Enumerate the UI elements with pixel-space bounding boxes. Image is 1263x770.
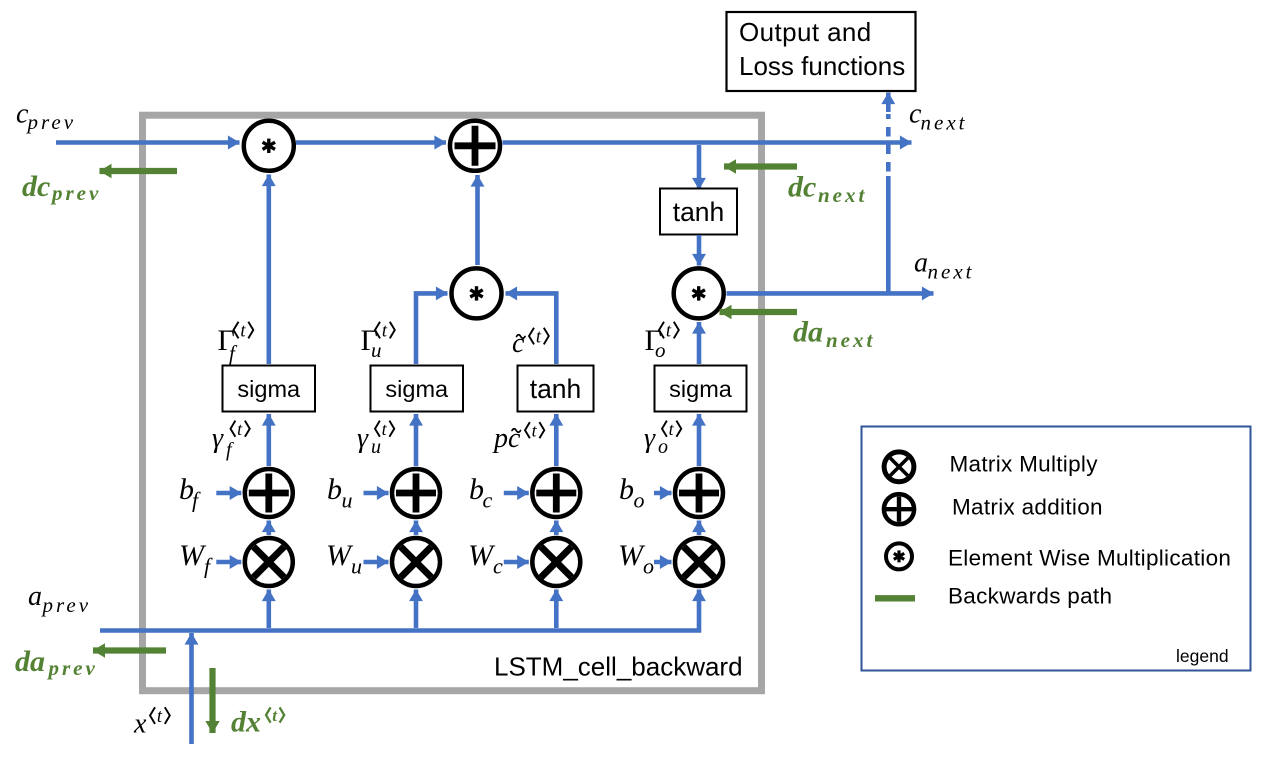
label a_next: [914, 248, 974, 284]
svg-text:c: c: [493, 554, 503, 579]
svg-text:next: next: [928, 260, 975, 284]
svg-text:prev: prev: [26, 110, 77, 134]
wire riser arrow into loss box: [886, 93, 891, 113]
svg-text:o: o: [655, 338, 666, 362]
wire mult circle up to add circle (col o): [697, 521, 702, 536]
svg-text:t: t: [536, 328, 542, 348]
svg-text:t: t: [157, 707, 163, 727]
wire a_prev with elbow up into matmul W_o: [100, 590, 699, 631]
box tanh (output path): [660, 189, 737, 235]
label c_next: [909, 99, 967, 135]
op-circle mult-mid (gamma_u * c_tilde): [452, 268, 502, 318]
op-circle mult1 (c_prev * gamma_f): [244, 121, 294, 171]
wire tanh to mult-out: [697, 235, 702, 266]
svg-text:next: next: [921, 111, 968, 135]
legend backwards path symbol: [875, 595, 915, 601]
label gamma_o^<t>: [644, 419, 681, 458]
svg-text:γ: γ: [644, 423, 656, 454]
label c_prev: [16, 99, 76, 135]
op-circle matmul W_c: [532, 538, 580, 586]
svg-text:b: b: [327, 473, 342, 506]
label gamma_f^<t>: [212, 419, 250, 461]
wire riser dashed segment: [886, 114, 891, 172]
svg-text:u: u: [342, 488, 353, 513]
svg-text:da: da: [793, 316, 823, 349]
wire b_f into add circle: [216, 491, 241, 496]
wire a_next: [727, 291, 934, 296]
svg-text:o: o: [634, 488, 645, 513]
green arrow dx down: [209, 668, 215, 733]
wire mult circle up to add circle (col f): [266, 521, 271, 536]
legend matmul symbol: [884, 452, 914, 482]
wire b_c into add circle: [504, 491, 529, 496]
svg-text:W: W: [468, 539, 496, 572]
wire add circle up to box (col f): [266, 414, 271, 466]
op-circle add b_f: [245, 469, 293, 517]
svg-text:next: next: [826, 328, 875, 352]
op-circle add b_u: [392, 469, 440, 517]
svg-text:prev: prev: [41, 593, 92, 617]
label a_prev: [28, 581, 91, 617]
svg-text:γ: γ: [357, 423, 369, 454]
label Gamma_f^<t>: [218, 322, 254, 366]
wire a_next riser: [886, 176, 891, 293]
op-circle add b_o: [675, 469, 723, 517]
wire tanh_c elbow to mult-mid: [506, 293, 557, 364]
svg-text:o: o: [643, 554, 654, 579]
label W_o: [618, 539, 654, 579]
wire x input: [189, 633, 194, 744]
svg-text:Matrix addition: Matrix addition: [952, 495, 1103, 520]
label gamma_u^<t>: [357, 419, 394, 458]
box sigma (update gate): [371, 366, 464, 412]
op-circle mult-out (a_next = gamma_o * tanh(c)): [674, 268, 724, 318]
LSTM cell border: [143, 115, 762, 691]
svg-text:pc: pc: [492, 423, 521, 454]
wire b_o into add circle: [654, 491, 672, 496]
svg-text:LSTM_cell_backward: LSTM_cell_backward: [494, 652, 743, 682]
svg-text:c: c: [512, 328, 525, 359]
svg-text:u: u: [371, 338, 382, 362]
legend add symbol: [884, 494, 914, 524]
label W_u: [326, 539, 362, 579]
label dc_next: [788, 171, 867, 208]
svg-text:tanh: tanh: [673, 197, 725, 227]
wire mult circle up to add circle (col c): [554, 521, 559, 536]
svg-text:W: W: [326, 539, 354, 572]
svg-text:W: W: [179, 539, 207, 572]
green arrow dc_prev: [100, 168, 178, 174]
label p c_tilde^<t>: [492, 421, 544, 455]
svg-text:tanh: tanh: [530, 374, 582, 404]
label b_u: [327, 473, 353, 513]
svg-text:sigma: sigma: [385, 376, 449, 402]
svg-text:t: t: [382, 322, 388, 342]
green arrow da_prev: [93, 647, 166, 653]
label W_f: [179, 539, 213, 579]
label x^<t>: [133, 707, 170, 740]
wire W_o into mult circle: [654, 560, 672, 565]
svg-text:a: a: [28, 581, 42, 612]
op-circle matmul W_f: [245, 538, 293, 586]
wire a_prev line up into matmul (col f): [266, 590, 271, 629]
wire add1 to c_next: [503, 140, 912, 145]
label dc_prev: [22, 170, 101, 205]
svg-text:c: c: [483, 488, 493, 513]
green arrow da_next: [720, 309, 798, 315]
label b_f: [179, 473, 201, 513]
box Output and Loss functions: [727, 12, 916, 91]
legend elementwise symbol: [886, 543, 912, 569]
svg-text:γ: γ: [212, 423, 224, 454]
label c_tilde^<t>: [512, 328, 549, 360]
svg-text:b: b: [619, 473, 634, 506]
svg-text:prev: prev: [47, 656, 98, 680]
svg-text:Backwards path: Backwards path: [948, 584, 1112, 609]
wire mult1 to add1: [296, 140, 446, 145]
wire W_c into mult circle: [504, 560, 529, 565]
svg-text:o: o: [658, 436, 668, 458]
svg-text:x: x: [133, 709, 147, 740]
wire sigma_u elbow to mult-mid: [416, 293, 448, 364]
wire W_f into mult circle: [216, 560, 241, 565]
label W_c: [468, 539, 503, 579]
svg-text:legend: legend: [1176, 646, 1229, 666]
wire c_prev into mult1: [56, 140, 240, 145]
svg-text:W: W: [618, 539, 646, 572]
wire W_u into mult circle: [364, 560, 389, 565]
svg-text:Output and: Output and: [739, 17, 872, 47]
svg-text:Matrix Multiply: Matrix Multiply: [950, 452, 1099, 477]
box sigma (output gate): [655, 366, 747, 412]
svg-text:da: da: [15, 645, 45, 678]
wire add circle up to box (col o): [697, 414, 702, 466]
wire sigma_f up to mult1: [266, 175, 271, 365]
label b_o: [619, 473, 645, 513]
label da_prev: [15, 645, 98, 680]
op-circle add1 (cell state sum): [450, 121, 500, 171]
svg-text:dc: dc: [22, 170, 50, 203]
wire b_u into add circle: [364, 491, 389, 496]
wire add circle up to box (col c): [554, 414, 559, 466]
svg-text:dc: dc: [788, 171, 816, 204]
label Gamma_o^<t>: [645, 322, 679, 363]
wire mult circle up to add circle (col u): [414, 521, 419, 536]
svg-text:u: u: [371, 436, 381, 458]
svg-text:prev: prev: [50, 181, 101, 205]
wire c line down to tanh: [697, 145, 702, 190]
op-circle matmul W_u: [392, 538, 440, 586]
svg-text:t: t: [240, 322, 246, 342]
svg-text:t: t: [666, 322, 672, 342]
svg-text:sigma: sigma: [669, 376, 733, 402]
label dx^<t>: [231, 706, 284, 739]
wire sigma_o up to mult-out: [697, 322, 702, 364]
svg-text:next: next: [818, 183, 867, 207]
box tanh (candidate): [518, 366, 594, 412]
svg-text:a: a: [914, 248, 928, 279]
op-circle matmul W_o: [675, 538, 723, 586]
svg-text:Loss functions: Loss functions: [739, 51, 905, 81]
wire a_prev line up into matmul (col c): [554, 590, 559, 629]
box sigma (forget gate): [223, 366, 316, 412]
legend box: [862, 427, 1251, 671]
label Gamma_u^<t>: [361, 322, 395, 363]
svg-text:u: u: [351, 554, 362, 579]
label b_c: [469, 473, 493, 513]
wire a_prev line up into matmul (col u): [414, 590, 419, 629]
svg-text:sigma: sigma: [237, 376, 301, 402]
op-circle add b_c: [532, 469, 580, 517]
label da_next: [793, 316, 875, 353]
svg-text:dx: dx: [231, 706, 261, 739]
green arrow dc_next: [724, 163, 797, 169]
svg-text:Element Wise Multiplication: Element Wise Multiplication: [948, 546, 1231, 571]
wire add circle up to box (col u): [414, 414, 419, 466]
wire mult-mid up to add1: [475, 175, 480, 265]
